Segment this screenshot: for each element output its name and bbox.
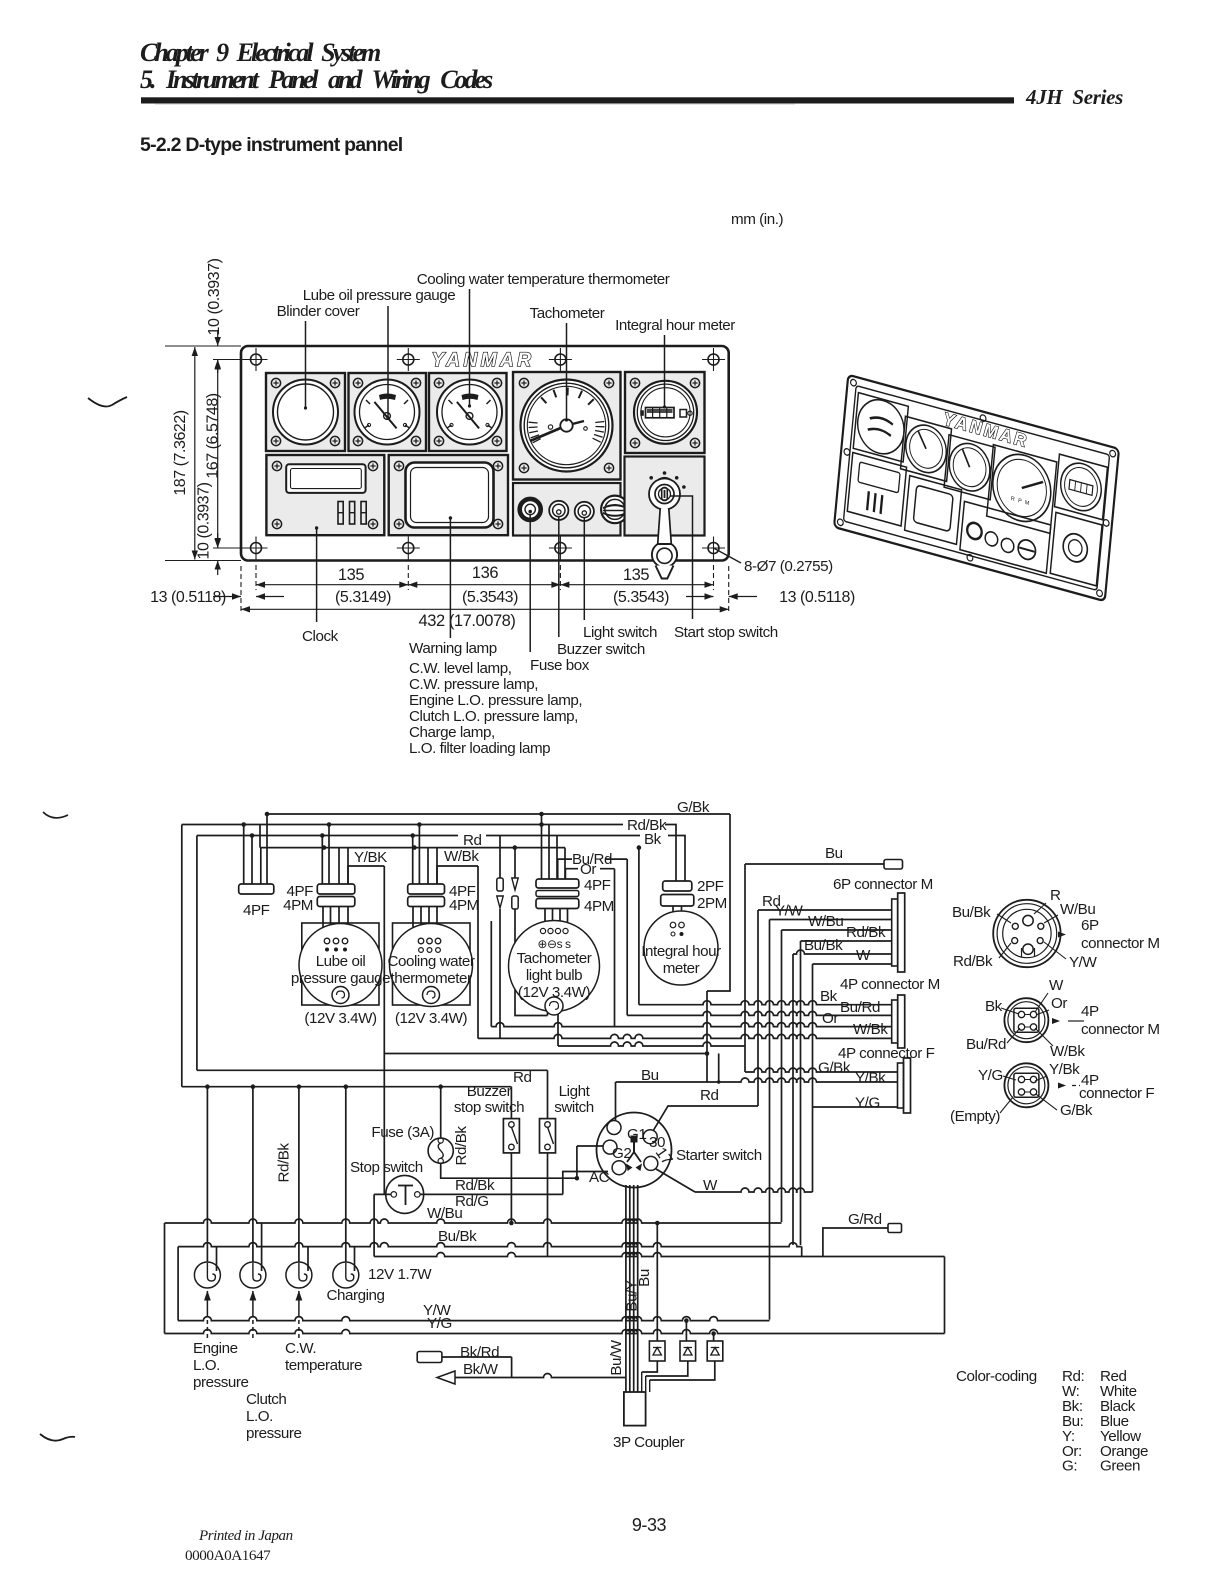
svg-text:Rd/Bk: Rd/Bk bbox=[953, 953, 993, 970]
tach bulb symbol bbox=[545, 997, 563, 1015]
wire W to 6P bbox=[813, 963, 892, 965]
wire Bu/Bk to 6P bbox=[793, 950, 892, 954]
svg-text:Cooling water temperature ther: Cooling water temperature thermometer bbox=[417, 271, 670, 288]
svg-text:Charge lamp,: Charge lamp, bbox=[409, 724, 495, 741]
diode 3 bbox=[713, 1334, 715, 1342]
svg-text:Lube oil pressure gauge: Lube oil pressure gauge bbox=[303, 287, 456, 304]
label start stop switch bbox=[670, 496, 693, 619]
svg-text:Tachometer: Tachometer bbox=[530, 305, 605, 322]
wire lamp feed rail bbox=[182, 1086, 512, 1088]
svg-text:Blinder cover: Blinder cover bbox=[277, 303, 360, 320]
svg-text:Lube oil: Lube oil bbox=[316, 953, 366, 970]
svg-text:Charging: Charging bbox=[327, 1287, 385, 1304]
svg-text:Bu/Rd: Bu/Rd bbox=[966, 1036, 1006, 1053]
dim extension lines bbox=[255, 565, 257, 590]
6P connector M diagram bbox=[993, 900, 1060, 967]
label fuse box bbox=[529, 515, 531, 652]
svg-text:Engine L.O. pressure lamp,: Engine L.O. pressure lamp, bbox=[409, 692, 582, 709]
svg-text:Bu/Bk: Bu/Bk bbox=[438, 1228, 477, 1245]
svg-text:Clock: Clock bbox=[302, 628, 339, 645]
connector 4PM cooling bbox=[408, 897, 445, 907]
svg-text:4P: 4P bbox=[1081, 1003, 1099, 1020]
svg-text:6P: 6P bbox=[1081, 917, 1099, 934]
svg-text:W/Bk: W/Bk bbox=[444, 848, 479, 865]
connector 2PM bbox=[661, 895, 694, 907]
cooling bulb bbox=[423, 987, 440, 1004]
svg-text:G:: G: bbox=[1062, 1458, 1077, 1475]
lamp clutch LO pressure bbox=[240, 1262, 266, 1288]
svg-text:Y/Bk: Y/Bk bbox=[855, 1070, 886, 1087]
svg-text:switch: switch bbox=[554, 1099, 594, 1116]
wire Bu/Rd bbox=[627, 1011, 892, 1015]
connector 4PF cooling bbox=[412, 836, 414, 885]
svg-text:Bu/Rd: Bu/Rd bbox=[840, 999, 880, 1016]
svg-text:4PF: 4PF bbox=[584, 877, 611, 894]
svg-text:Bk: Bk bbox=[985, 998, 1003, 1015]
wire Or drop bbox=[565, 869, 614, 1027]
dim 13 left/right bbox=[213, 596, 241, 598]
svg-text:mm (in.): mm (in.) bbox=[731, 211, 783, 228]
scan mark 3 bbox=[40, 1434, 75, 1441]
svg-text:W: W bbox=[703, 1177, 718, 1194]
svg-text:Rd: Rd bbox=[463, 832, 482, 849]
wire G/Bk drop bbox=[707, 814, 730, 1082]
wire W starter bbox=[656, 1169, 813, 1192]
dim 187 bbox=[165, 345, 241, 347]
svg-text:Bu/Bk: Bu/Bk bbox=[952, 904, 991, 921]
svg-text:Bu/Y: Bu/Y bbox=[624, 1280, 641, 1311]
svg-text:Green: Green bbox=[1100, 1458, 1140, 1475]
svg-text:G/Rd: G/Rd bbox=[848, 1211, 882, 1228]
svg-text:YANMAR: YANMAR bbox=[432, 350, 535, 371]
svg-text:W/Bu: W/Bu bbox=[427, 1205, 462, 1222]
dim 167 bbox=[213, 359, 250, 361]
svg-text:Y/W: Y/W bbox=[1069, 954, 1097, 971]
svg-text:136: 136 bbox=[472, 564, 498, 582]
persp warning box bbox=[905, 476, 962, 545]
dim 10 bottom bbox=[217, 533, 219, 548]
diode 2 bbox=[685, 1321, 687, 1341]
svg-text:W/Bk: W/Bk bbox=[1050, 1043, 1085, 1060]
svg-text:0000A0A1647: 0000A0A1647 bbox=[185, 1547, 271, 1564]
svg-text:13 (0.5118): 13 (0.5118) bbox=[150, 589, 226, 606]
buzzer stop switch bbox=[510, 1087, 512, 1119]
svg-text:⊕⊖s s: ⊕⊖s s bbox=[537, 937, 571, 951]
svg-text:432 (17.0078): 432 (17.0078) bbox=[419, 612, 516, 630]
svg-text:Rd: Rd bbox=[700, 1087, 719, 1104]
panel screw top-right bbox=[702, 348, 725, 371]
svg-text:Rd/Bk: Rd/Bk bbox=[276, 1143, 293, 1183]
svg-text:G/Bk: G/Bk bbox=[1060, 1102, 1093, 1119]
diode return wires bbox=[642, 1361, 658, 1372]
clock buttons bbox=[338, 502, 343, 525]
integral hour meter square bbox=[625, 372, 705, 453]
svg-text:(12V 3.4W): (12V 3.4W) bbox=[304, 1010, 377, 1027]
svg-text:187 (7.3622): 187 (7.3622) bbox=[172, 410, 189, 495]
lamp CW temperature bbox=[286, 1262, 312, 1288]
svg-text:Engine: Engine bbox=[193, 1340, 238, 1357]
warning lamp box bbox=[389, 455, 508, 535]
wire W/Bk bbox=[478, 1034, 892, 1038]
svg-text:Y/BK: Y/BK bbox=[354, 849, 387, 866]
wire Rd/Bk rail bbox=[182, 824, 623, 826]
svg-text:Rd/Bk: Rd/Bk bbox=[455, 1177, 495, 1194]
dim 432 bbox=[241, 608, 729, 610]
svg-text:Bk/W: Bk/W bbox=[463, 1361, 499, 1378]
persp clock box bbox=[847, 452, 906, 526]
svg-text:W: W bbox=[1049, 977, 1064, 994]
persp gauge 3 bbox=[944, 435, 995, 500]
key bbox=[658, 509, 672, 545]
svg-text:W/Bu: W/Bu bbox=[1060, 901, 1095, 918]
svg-text:4JH Series: 4JH Series bbox=[1025, 85, 1123, 109]
svg-text:Rd/Bk: Rd/Bk bbox=[453, 1126, 470, 1166]
start stop switch box bbox=[625, 457, 705, 536]
scan mark 2 bbox=[43, 812, 68, 818]
wire Rd starter bbox=[653, 1106, 758, 1131]
svg-text:light bulb: light bulb bbox=[526, 967, 582, 984]
wire Bk/W arrow bbox=[437, 1371, 455, 1384]
svg-text:9-33: 9-33 bbox=[632, 1515, 667, 1535]
wire lower top rail bbox=[259, 825, 261, 848]
svg-text:4P connector M: 4P connector M bbox=[840, 976, 940, 993]
svg-text:W/Bu: W/Bu bbox=[808, 913, 843, 930]
svg-text:(12V 3.4W): (12V 3.4W) bbox=[395, 1010, 468, 1027]
panel screw bottom-left bbox=[245, 537, 268, 560]
svg-text:Y/G: Y/G bbox=[855, 1095, 880, 1112]
svg-text:Light switch: Light switch bbox=[583, 624, 657, 641]
svg-text:G/Bk: G/Bk bbox=[677, 799, 710, 816]
dim 10 top bbox=[217, 330, 219, 346]
svg-text:connector F: connector F bbox=[1079, 1085, 1154, 1102]
wire Bu starter bbox=[616, 1081, 719, 1083]
svg-text:Bu: Bu bbox=[641, 1067, 659, 1084]
lamp charging bbox=[333, 1262, 359, 1288]
svg-text:C.W. level lamp,: C.W. level lamp, bbox=[409, 660, 512, 677]
cooling water thermometer bbox=[393, 923, 471, 1005]
svg-text:pressure: pressure bbox=[246, 1425, 302, 1442]
wire left boundary outer bbox=[181, 825, 183, 1087]
wire Bu plug bbox=[745, 863, 884, 865]
panel screw top-mid2 bbox=[549, 348, 572, 371]
connector 4PM tach bbox=[536, 899, 579, 909]
svg-text:5-2.2 D-type instrument pannel: 5-2.2 D-type instrument pannel bbox=[140, 134, 403, 156]
tachometer light bulb bbox=[509, 921, 600, 1012]
svg-text:Or: Or bbox=[580, 861, 596, 878]
svg-text:Fuse (3A): Fuse (3A) bbox=[371, 1124, 434, 1141]
wire W/Bk bbox=[437, 866, 478, 884]
wire left boundary inner bbox=[196, 836, 198, 1071]
svg-text:8-Ø7 (0.2755): 8-Ø7 (0.2755) bbox=[744, 558, 833, 575]
buzzer switch button bbox=[549, 501, 568, 520]
svg-text:13 (0.5118): 13 (0.5118) bbox=[779, 589, 855, 606]
svg-text:Tachometer: Tachometer bbox=[517, 950, 592, 967]
4P connector M flange bbox=[892, 1000, 898, 1043]
persp gauge 2 bbox=[901, 416, 952, 481]
panel screw bottom-mid2 bbox=[549, 537, 572, 560]
svg-text:4P connector F: 4P connector F bbox=[838, 1045, 935, 1062]
svg-text:thermometer: thermometer bbox=[390, 970, 472, 987]
persp hour meter bbox=[1055, 454, 1108, 520]
svg-text:Warning lamp: Warning lamp bbox=[409, 640, 497, 657]
label buzzer switch bbox=[558, 516, 560, 637]
svg-text:meter: meter bbox=[663, 960, 700, 977]
svg-text:connector M: connector M bbox=[1081, 935, 1160, 952]
svg-text:C.W.: C.W. bbox=[285, 1340, 316, 1357]
svg-text:Light: Light bbox=[559, 1083, 591, 1100]
svg-text:4PM: 4PM bbox=[283, 897, 313, 914]
integral hour meter bbox=[644, 911, 718, 985]
tachometer square bbox=[513, 372, 621, 480]
panel screw top-left bbox=[245, 348, 268, 371]
lube oil pressure gauge bbox=[302, 923, 379, 1005]
svg-text:135: 135 bbox=[338, 566, 364, 584]
svg-text:5. Instrument Panel and Wiring: 5. Instrument Panel and Wiring Codes bbox=[140, 65, 493, 94]
cooling water thermometer gauge square bbox=[429, 373, 507, 451]
svg-text:Stop switch: Stop switch bbox=[350, 1159, 423, 1176]
svg-text:L.O.: L.O. bbox=[246, 1408, 273, 1425]
svg-text:Bu: Bu bbox=[825, 845, 843, 862]
4P connector F flange bbox=[898, 1063, 904, 1108]
4P connector F diagram bbox=[1004, 1063, 1048, 1107]
wire G/Bk top rail bbox=[267, 813, 730, 815]
svg-text:stop switch: stop switch bbox=[454, 1099, 524, 1116]
svg-text:temperature: temperature bbox=[285, 1357, 362, 1374]
connector 4PF lube bbox=[321, 836, 323, 885]
svg-text:Fuse box: Fuse box bbox=[530, 657, 590, 674]
svg-text:4PF: 4PF bbox=[243, 902, 270, 919]
wire Bu/Rd drop bbox=[558, 859, 628, 1015]
header rule bbox=[141, 97, 1014, 103]
svg-text:Bk/Rd: Bk/Rd bbox=[460, 1344, 499, 1361]
wire G/Bk to F bbox=[558, 1014, 898, 1072]
svg-text:Or: Or bbox=[822, 1010, 838, 1027]
svg-text:Bu/W: Bu/W bbox=[608, 1339, 625, 1375]
lamp engine LO pressure bbox=[194, 1262, 220, 1288]
svg-text:Bk: Bk bbox=[644, 831, 662, 848]
svg-text:Y/W: Y/W bbox=[775, 903, 803, 920]
wire mid-low rail bbox=[374, 1253, 944, 1257]
wire Rd mid rail bbox=[197, 1069, 548, 1071]
wire Or bbox=[491, 921, 891, 1027]
wire Rd rail bbox=[197, 835, 458, 837]
persp tachometer bbox=[987, 445, 1057, 534]
svg-text:4PM: 4PM bbox=[449, 897, 479, 914]
svg-text:pressure gauge: pressure gauge bbox=[291, 970, 390, 987]
lube bulb bbox=[332, 987, 349, 1004]
label warning lamp group bbox=[449, 518, 451, 638]
panel screw bottom-mid1 bbox=[397, 537, 420, 560]
perspective panel view bbox=[834, 375, 1119, 601]
panel screw top-mid1 bbox=[397, 348, 420, 371]
clock box bbox=[266, 455, 384, 535]
start stop key switch bbox=[649, 479, 680, 510]
label clock bbox=[316, 528, 318, 622]
svg-text:Rd/Bk: Rd/Bk bbox=[846, 924, 886, 941]
connector 2PF bbox=[663, 881, 692, 891]
svg-text:3P Coupler: 3P Coupler bbox=[613, 1434, 685, 1451]
svg-text:Bu/Bk: Bu/Bk bbox=[804, 937, 843, 954]
svg-text:6P connector M: 6P connector M bbox=[833, 876, 933, 893]
wire W/Bu to 6P bbox=[782, 929, 892, 931]
svg-text:135: 135 bbox=[623, 566, 649, 584]
svg-text:Buzzer switch: Buzzer switch bbox=[557, 641, 645, 658]
svg-text:Y/G: Y/G bbox=[427, 1315, 452, 1332]
switch strip box bbox=[513, 483, 621, 536]
svg-text:L.O. filter loading lamp: L.O. filter loading lamp bbox=[409, 740, 550, 757]
wire Bk bbox=[639, 848, 892, 1005]
persp gauge logo bbox=[853, 393, 908, 462]
svg-text:(5.3149): (5.3149) bbox=[335, 589, 391, 606]
connector 4PF tach bbox=[541, 814, 543, 879]
svg-text:Color-coding: Color-coding bbox=[956, 1368, 1037, 1385]
svg-text:10 (0.3937): 10 (0.3937) bbox=[206, 258, 223, 335]
svg-text:W: W bbox=[856, 947, 871, 964]
persp switch strip bbox=[960, 501, 1051, 573]
4P connector M diagram bbox=[1004, 998, 1048, 1042]
svg-text:AC: AC bbox=[589, 1169, 610, 1186]
label 8-d7 bbox=[714, 548, 742, 563]
svg-text:L.O.: L.O. bbox=[193, 1357, 220, 1374]
svg-text:Buzzer: Buzzer bbox=[467, 1083, 512, 1100]
wire Rd/Bk to 6P bbox=[801, 940, 892, 942]
wire Rd to 6P bbox=[758, 909, 892, 911]
svg-text:Clutch: Clutch bbox=[246, 1391, 286, 1408]
svg-text:(Empty): (Empty) bbox=[950, 1108, 1000, 1125]
instrument panel front view outline bbox=[241, 346, 729, 561]
scan mark 1 bbox=[88, 397, 127, 406]
light switch knob bbox=[520, 499, 541, 520]
svg-text:4PM: 4PM bbox=[584, 898, 614, 915]
wire rail mid bbox=[384, 1053, 707, 1055]
connector 4PM lube bbox=[317, 897, 355, 907]
svg-text:2PM: 2PM bbox=[697, 895, 727, 912]
wire Y/Bk to F bbox=[719, 1054, 898, 1083]
svg-text:Rd: Rd bbox=[513, 1069, 532, 1086]
svg-text:C.W. pressure lamp,: C.W. pressure lamp, bbox=[409, 676, 538, 693]
6P connector M flange bbox=[892, 899, 898, 966]
wire Y/BK bbox=[348, 866, 384, 884]
svg-text:(5.3543): (5.3543) bbox=[462, 589, 518, 606]
lube oil pressure gauge square bbox=[349, 373, 427, 451]
svg-text:pressure: pressure bbox=[193, 1374, 249, 1391]
svg-text:G/Bk: G/Bk bbox=[818, 1060, 851, 1077]
svg-text:connector M: connector M bbox=[1081, 1021, 1160, 1038]
svg-text:167 (6.5748): 167 (6.5748) bbox=[205, 393, 222, 478]
small switch button bbox=[575, 502, 594, 521]
svg-text:Chapter 9 Electrical System: Chapter 9 Electrical System bbox=[140, 38, 380, 67]
svg-text:Y/G: Y/G bbox=[978, 1067, 1003, 1084]
label light switch bbox=[583, 517, 585, 620]
panel screw bottom-right bbox=[702, 537, 725, 560]
dim 135/136/135 bbox=[256, 584, 714, 586]
svg-text:(5.3543): (5.3543) bbox=[613, 589, 669, 606]
persp key switch box bbox=[1050, 512, 1102, 585]
svg-text:Cooling water: Cooling water bbox=[387, 953, 474, 970]
3P coupler bbox=[624, 1392, 646, 1426]
svg-text:10 (0.3937): 10 (0.3937) bbox=[196, 482, 213, 559]
svg-text:2PF: 2PF bbox=[697, 878, 724, 895]
wire Y/G rail bbox=[164, 1223, 166, 1334]
svg-text:Starter switch: Starter switch bbox=[676, 1147, 762, 1164]
wire Y/W to 6P bbox=[770, 919, 892, 921]
svg-text:Y/Bk: Y/Bk bbox=[1049, 1061, 1080, 1078]
svg-text:Integral hour: Integral hour bbox=[641, 943, 721, 960]
starter switch bbox=[597, 1113, 672, 1188]
svg-text:Integral hour meter: Integral hour meter bbox=[615, 317, 735, 334]
svg-text:Start stop switch: Start stop switch bbox=[674, 624, 778, 641]
wire Y/G to F bbox=[813, 1106, 898, 1108]
svg-text:12V 1.7W: 12V 1.7W bbox=[368, 1266, 432, 1283]
svg-text:Printed in Japan: Printed in Japan bbox=[198, 1528, 293, 1544]
svg-text:Or: Or bbox=[1051, 995, 1067, 1012]
wire Bk/Rd plug bbox=[417, 1352, 442, 1363]
svg-text:Clutch L.O. pressure lamp,: Clutch L.O. pressure lamp, bbox=[409, 708, 578, 725]
diode 1 bbox=[649, 1341, 665, 1361]
connector 4PF empty bbox=[243, 825, 245, 885]
svg-text:W/Bk: W/Bk bbox=[853, 1021, 888, 1038]
wire Bu/Bk rail bbox=[178, 1243, 802, 1247]
inline pin connectors bbox=[499, 836, 501, 879]
fuse box rotary bbox=[601, 496, 629, 524]
wire W/Bu rail bbox=[165, 1219, 782, 1223]
svg-text:Bk: Bk bbox=[820, 988, 838, 1005]
wire bundle Bu/Y Bu bbox=[625, 1185, 627, 1392]
wire Y/W rail bbox=[178, 1317, 769, 1321]
blinder cover gauge square bbox=[266, 373, 345, 451]
